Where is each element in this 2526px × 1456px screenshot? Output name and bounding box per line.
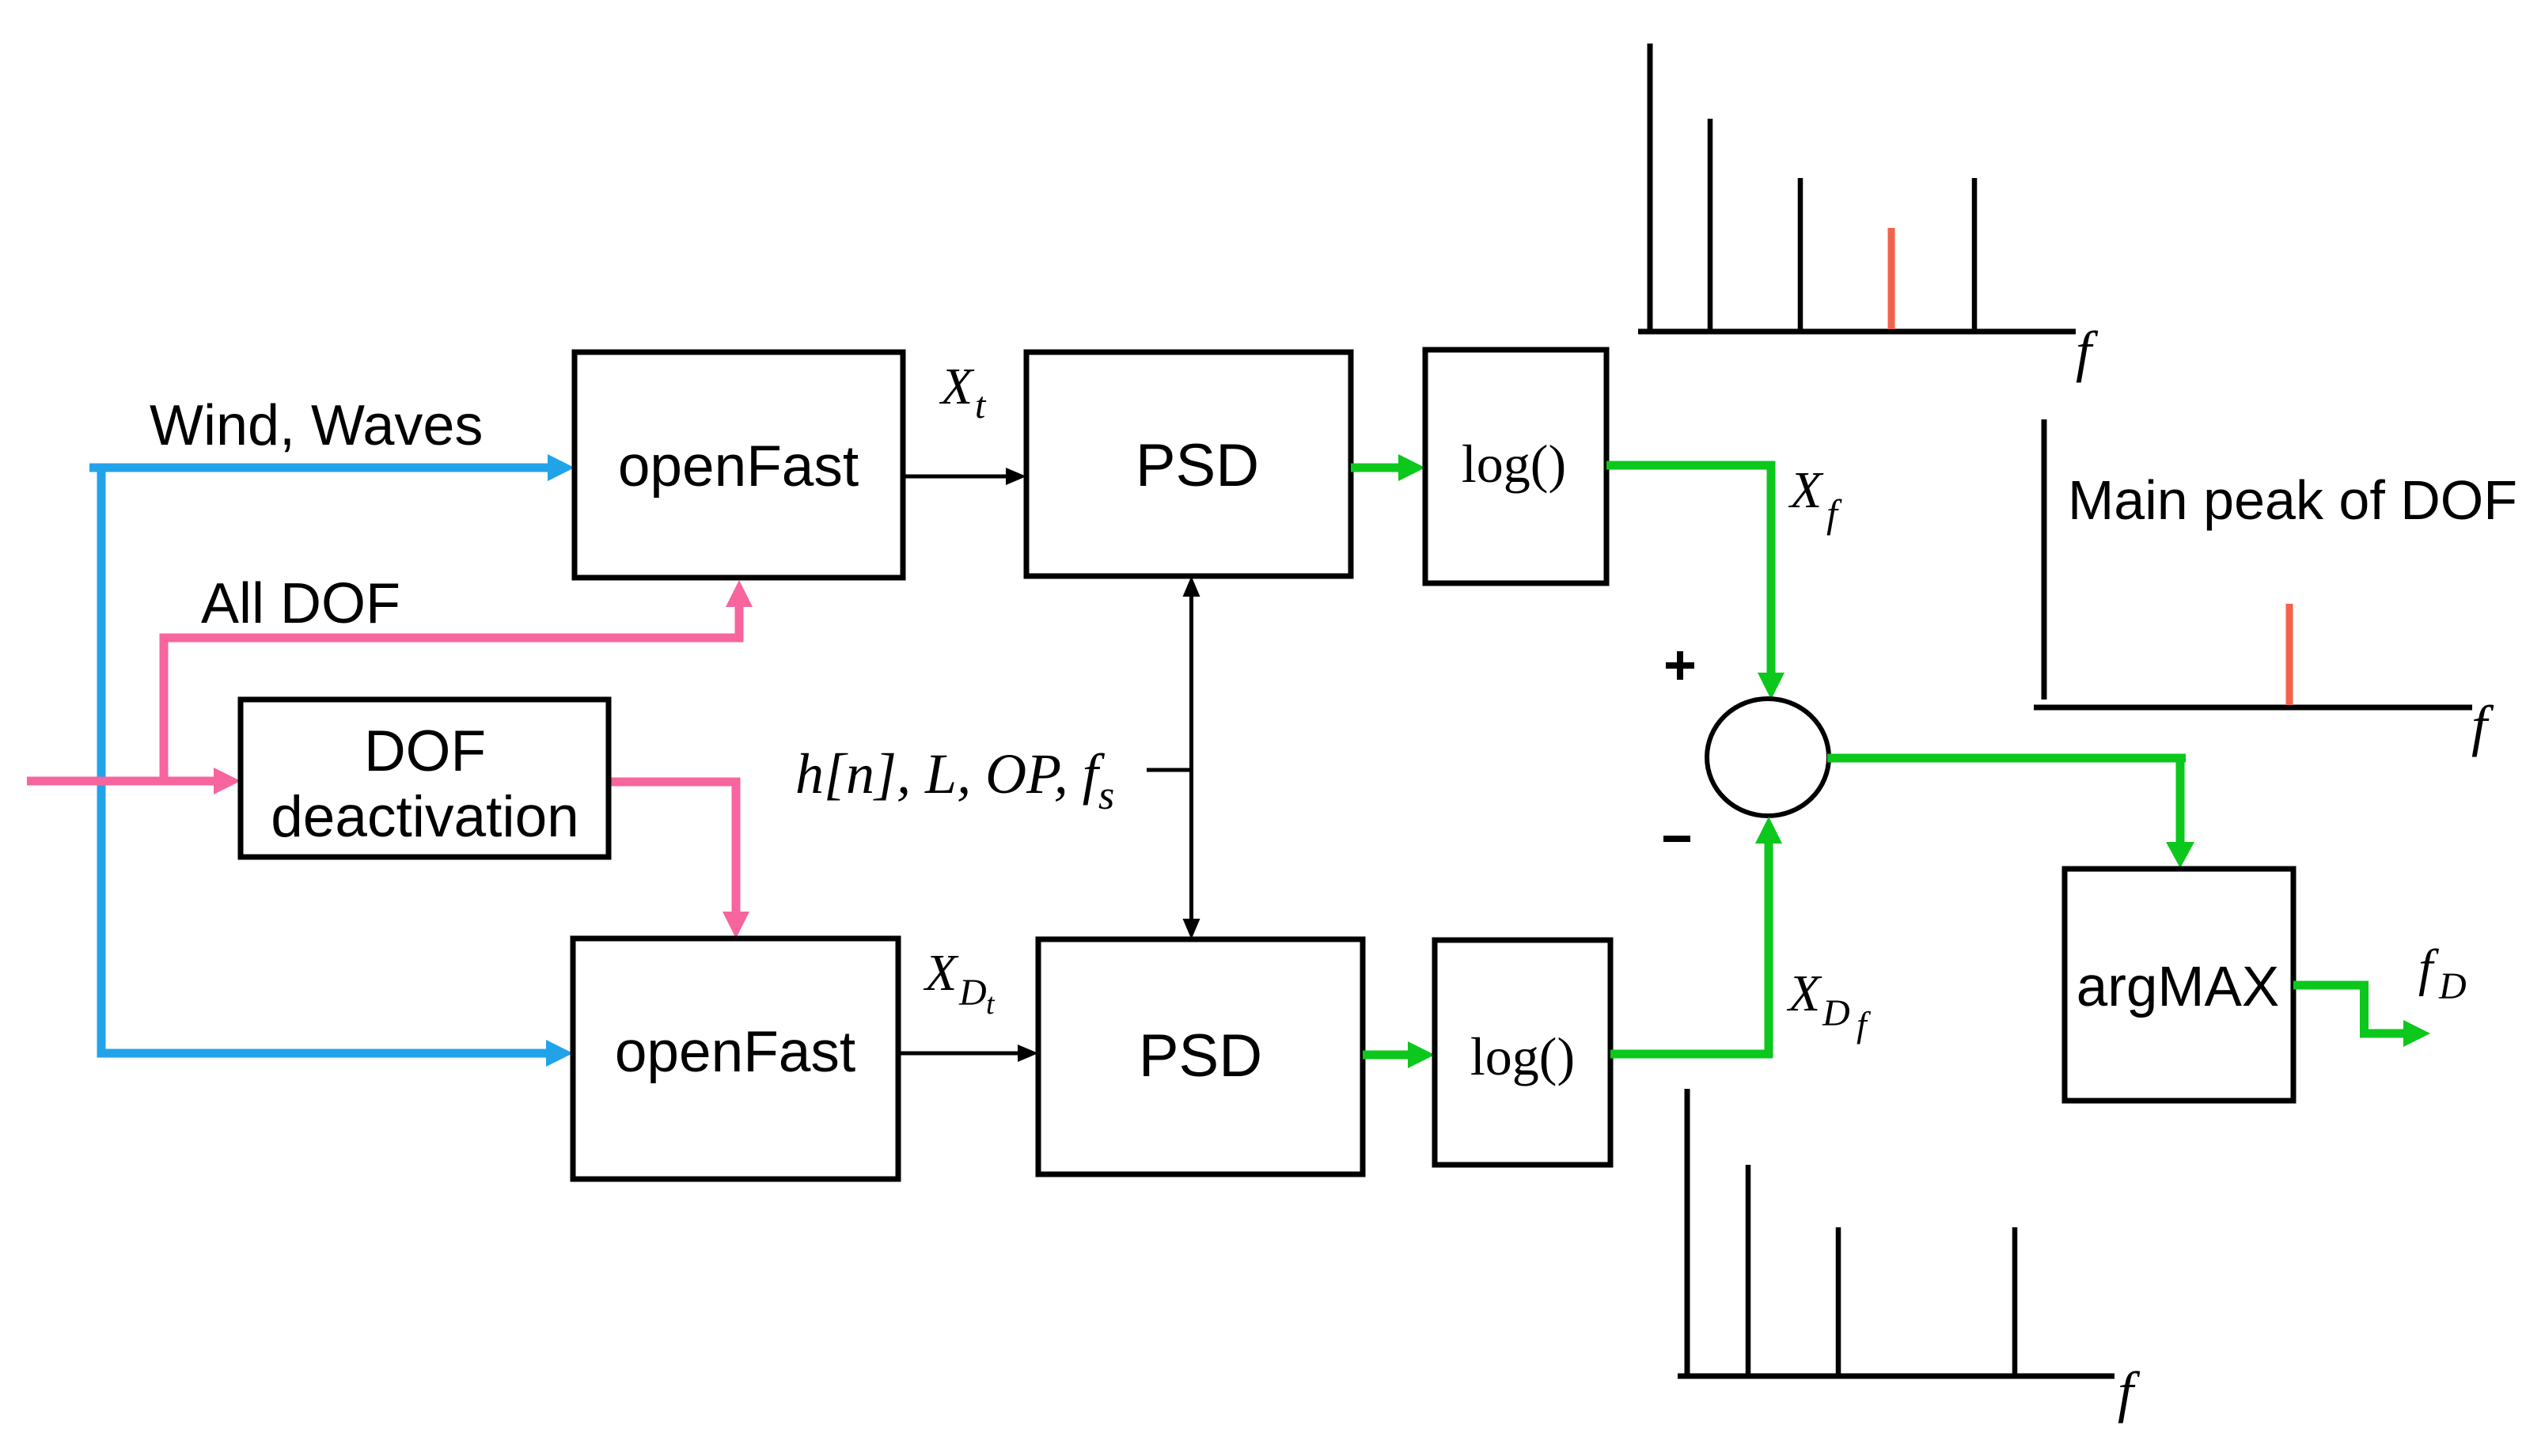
svg-text:X: X [1788,461,1824,519]
wire green bottom PSD to log [1363,1041,1435,1068]
block PSD (bottom) [1038,939,1363,1174]
chart top-right spectrum: baseline [1638,329,2076,335]
wire black h[n] connector and PSD parameter line [1147,576,1200,939]
chart mid-right spectrum: y-axis [2042,419,2047,700]
svg-text:log(): log() [1470,1026,1575,1086]
chart bottom spectrum: spike 2 [1746,1165,1751,1376]
svg-text:D: D [958,972,987,1014]
svg-text:s: s [1098,773,1114,818]
chart bottom spectrum: spike 1 tall [1685,1089,1690,1376]
svg-text:PSD: PSD [1139,1022,1262,1090]
svg-text:PSD: PSD [1136,432,1259,499]
svg-text:log(): log() [1462,434,1566,494]
block log() (bottom) [1435,940,1610,1165]
chart top-right spike 2 [1708,119,1713,329]
block PSD (top) [1026,352,1351,576]
svg-text:t: t [975,385,987,427]
svg-text:Wind, Waves: Wind, Waves [150,394,483,457]
wire green PSD to log (top) [1351,454,1425,481]
wire green log to summing circle (X_f path) [1606,461,1785,700]
wire green bottom log to circle (X_Df path) [1610,817,1782,1059]
svg-text:h[n], L, OP, f: h[n], L, OP, f [795,742,1106,806]
node label f_D [2418,939,2467,1007]
wire green argMAX output f_D [2293,981,2430,1048]
wire black openFast to PSD [903,468,1026,485]
chart top-right red spike [1888,228,1895,329]
wire blue Wind,Waves horizontal into openFast [89,454,575,481]
svg-text:X: X [1786,965,1822,1022]
svg-text:argMAX: argMAX [2077,956,2279,1018]
block openFast (top) [575,352,903,578]
svg-text:DOF: DOF [364,719,486,783]
wire black bottom openFast to PSD [898,1045,1038,1062]
wire pink All DOF branch up into openFast [160,580,753,782]
wire pink DOF deactivation to bottom openFast [609,778,749,939]
chart bottom spectrum: spike 4 [2012,1227,2018,1376]
node label minus sign [1663,836,1690,842]
chart top-right spike 3 [1798,178,1803,329]
node label X_t [939,358,987,427]
svg-text:D: D [2438,965,2467,1007]
svg-text:All DOF: All DOF [201,572,400,635]
chart mid-right spectrum: baseline [2034,705,2472,711]
node label plus sign [1666,651,1694,680]
chart top-right spectrum: y-axis [1648,44,1653,329]
chart top-right spike 4 [1972,178,1978,329]
wire blue vertical branch down [97,468,574,1067]
svg-text:Main peak of DOF: Main peak of DOF [2068,469,2517,531]
svg-text:deactivation: deactivation [271,785,579,849]
wire green circle to argMAX [1827,754,2194,869]
summing junction circle [1707,699,1829,816]
svg-text:openFast: openFast [618,434,859,499]
block DOF deactivation [241,700,609,857]
node label h[n], L, OP, f_s [795,742,1114,818]
chart bottom spectrum: baseline [1678,1374,2114,1379]
block openFast (bottom) [573,938,898,1179]
svg-text:D: D [1822,992,1850,1034]
node label X_Df [1786,965,1872,1045]
svg-text:t: t [986,988,996,1021]
svg-text:X: X [939,358,975,415]
svg-text:X: X [923,944,959,1002]
chart mid-right red spike [2286,604,2293,705]
block log() (top) [1425,350,1606,583]
block argMAX [2065,869,2293,1101]
wire pink input to DOF deactivation [27,768,241,794]
node label X_Dt [923,944,996,1021]
chart bottom spectrum: spike 3 [1836,1227,1841,1376]
svg-text:openFast: openFast [615,1020,855,1084]
node label X_f [1788,461,1842,536]
